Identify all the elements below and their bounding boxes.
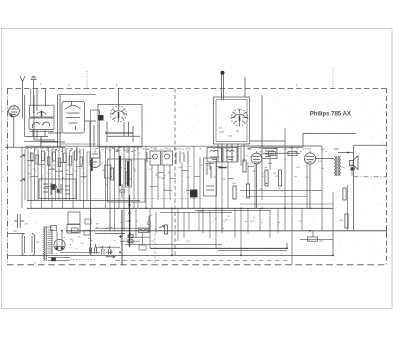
pickup arrow b xyxy=(106,251,112,253)
wire mains left a xyxy=(8,233,25,235)
wire psu h260 xyxy=(48,260,70,262)
wire IF1 lead extra a xyxy=(109,208,111,231)
wire link mid-3 xyxy=(182,169,188,171)
output transformer T3 secondary xyxy=(339,157,340,176)
wire IF1 lead extra b xyxy=(114,208,116,231)
bus wire earth y200 xyxy=(27,200,140,202)
wire vertical mid-3 xyxy=(163,165,165,208)
psu small dark box xyxy=(52,258,56,261)
rectifier B9 dots xyxy=(56,247,59,249)
capacitor C45 xyxy=(269,152,276,156)
chassis boundary dash-dot line left xyxy=(7,89,9,265)
power transformer core lines xyxy=(46,227,52,261)
wire vertical x262 xyxy=(261,95,263,147)
resistor R36h xyxy=(288,152,297,156)
junction dot 0 xyxy=(129,233,131,235)
wire vertical x57.5 xyxy=(57,95,59,147)
resistor R41 box xyxy=(51,226,57,231)
wire vertical mid-7 xyxy=(193,146,195,208)
wire vertical mid-6 xyxy=(187,163,189,208)
potentiometer arrow 1 xyxy=(20,155,25,157)
wire corner x24.7-y136 xyxy=(25,136,48,138)
wire link left-2 xyxy=(48,168,55,170)
wire vertical x45.6 xyxy=(45,89,47,107)
chassis boundary dashed line top xyxy=(7,88,387,90)
wire vertical mid-22 xyxy=(332,192,334,231)
capacitor C8 left plates xyxy=(14,214,24,228)
resistor R8 xyxy=(69,156,72,165)
wire vertical left-1 xyxy=(24,149,26,201)
wire link left-3 xyxy=(59,161,66,163)
wire link mid-6 xyxy=(228,177,234,179)
wire vertical mid-8 xyxy=(199,157,201,208)
wire x142 drop xyxy=(142,233,144,246)
wire link left-4 xyxy=(66,173,73,175)
capacitor C33 xyxy=(147,216,151,233)
wire psu h257 xyxy=(48,257,70,259)
resistor R9 xyxy=(75,151,78,160)
wire vertical mid-19 xyxy=(291,146,293,231)
antenna lead wire xyxy=(22,89,24,119)
shield box T2 outer xyxy=(214,97,250,144)
wire grid cap lead a xyxy=(221,74,223,100)
wire vertical bot-2 xyxy=(149,208,151,248)
wire link left-6 xyxy=(45,185,52,187)
shield box interior specks xyxy=(219,128,239,136)
wire AF return y196 xyxy=(247,196,307,198)
wire vertical mid-24 xyxy=(351,164,353,176)
tube B4 envelope xyxy=(111,106,127,122)
wire link left-8 xyxy=(80,175,87,177)
mains dropper squiggle xyxy=(140,229,147,231)
bus bottom y244 xyxy=(125,244,222,246)
wire vertical x34 xyxy=(33,95,35,140)
potentiometer arrow 2 xyxy=(20,179,25,181)
mains cable shield left xyxy=(22,234,34,256)
svg-text:s: s xyxy=(84,76,85,78)
wire vertical bot-12 xyxy=(240,208,242,255)
wire vertical x189 xyxy=(188,212,190,231)
junction dot 3 xyxy=(286,248,288,250)
wire vertical mid-1 xyxy=(151,165,153,208)
resistor R12 xyxy=(126,172,129,184)
tube B6 envelope xyxy=(251,153,262,164)
wire rectifier top a xyxy=(56,231,58,240)
wire vertical bot-8 xyxy=(209,210,211,238)
resistor R4 xyxy=(47,157,50,165)
wire signal rail y146 xyxy=(25,145,240,147)
wire x41 drop xyxy=(40,137,42,148)
resistor R3 xyxy=(42,151,45,161)
heater dashed rail y260 xyxy=(115,259,290,261)
tube B8 dark hatch xyxy=(91,158,93,171)
pickup capacitor Ca xyxy=(102,246,105,255)
ground symbol (earth) xyxy=(31,76,37,88)
svg-text:NFS: NFS xyxy=(334,148,339,151)
tube B2 anode curl left xyxy=(32,123,39,129)
wire can1 leads xyxy=(33,130,45,139)
dark bus vertical x129 xyxy=(129,195,131,247)
wire streak y144 xyxy=(60,143,96,145)
wire vertical mid-21 xyxy=(321,146,323,231)
junction dot 6 xyxy=(119,251,121,253)
svg-text:Philips 785 AX: Philips 785 AX xyxy=(310,112,351,118)
wire vertical left-0 xyxy=(21,147,23,208)
wire IF1 lead 3 xyxy=(118,147,120,208)
wire vertical bot-9 xyxy=(215,231,217,248)
resistor R45 horizontal xyxy=(308,237,318,241)
wire link mid-11 xyxy=(205,162,214,164)
wire vertical left-12 xyxy=(62,147,64,208)
switch contacts xyxy=(43,183,70,195)
wire audio feed y147 xyxy=(250,146,303,148)
trimmer row xyxy=(147,151,188,164)
bus wire aux y212 xyxy=(160,211,232,213)
wire vertical left-13 xyxy=(65,149,67,201)
choke dark winding b xyxy=(127,161,130,186)
wire vertical mid-10 xyxy=(215,162,217,231)
wire vertical left-6 xyxy=(41,150,43,208)
wire x90 heavy xyxy=(90,160,92,255)
wire box1 bottom link xyxy=(34,139,55,141)
speaker field dash-dot line xyxy=(354,176,387,178)
wire B7 down xyxy=(309,164,311,208)
wire vertical mid-4 xyxy=(169,165,171,200)
junction dot 2 xyxy=(240,255,242,257)
wire vertical x90 x94 xyxy=(90,121,94,147)
terminal block dark xyxy=(191,190,198,197)
bandfilter box F1 xyxy=(150,151,161,165)
switch dark knob xyxy=(52,185,56,190)
antenna trimmer dotted lead xyxy=(86,71,88,89)
tube B7 output envelope xyxy=(304,153,315,164)
wire audio coupling y146 xyxy=(240,145,322,147)
pickup capacitor Cb xyxy=(109,246,112,255)
resistor R33 xyxy=(164,225,167,234)
wire link left-5 xyxy=(31,175,38,177)
bus bottom y228 xyxy=(95,227,150,229)
tube B2 umbrella grid xyxy=(37,112,46,114)
svg-text:U: U xyxy=(95,152,97,155)
wire link mid-9 xyxy=(164,189,172,191)
tube B2 anode curl right xyxy=(43,122,50,126)
wire vertical bot-10 xyxy=(221,208,223,233)
wire vertical left-14 xyxy=(69,150,71,200)
IF T1 inner verticals xyxy=(107,122,133,142)
wire box2 bottom y131 xyxy=(48,132,62,134)
wire vertical left-4 xyxy=(34,147,36,200)
wire mains left b xyxy=(8,254,23,256)
wire vertical bot-13 xyxy=(247,208,249,233)
IF T1 wire y136 xyxy=(107,135,140,137)
speaker LS cone xyxy=(353,156,358,170)
tube B4 electrode spokes xyxy=(111,106,127,122)
wire vertical bot-6 xyxy=(183,212,185,238)
wire vertical mid-16 xyxy=(261,158,263,200)
wave-band switch box xyxy=(39,179,76,199)
IF T1 dark corner part xyxy=(99,116,104,121)
wire vertical mid-2 xyxy=(157,165,159,200)
rectifier tube B9 envelope xyxy=(54,239,65,250)
wire vertical mid-14 xyxy=(247,162,249,184)
wire vertical left-5 xyxy=(37,149,39,201)
wire y142 link xyxy=(40,141,65,143)
wire IF1 lead 0 xyxy=(105,147,107,208)
wire vertical bot-1 xyxy=(135,208,137,238)
wire vertical left-7 xyxy=(44,152,46,201)
wire vertical bot-7 xyxy=(202,208,204,233)
resistor R27 xyxy=(265,170,268,186)
IF can T1 outline xyxy=(98,105,142,148)
wire corner y133 x303 xyxy=(303,134,356,148)
wire vertical bot-11 xyxy=(234,208,236,238)
shield box T2 inner xyxy=(216,100,247,142)
wire vertical x60.5 xyxy=(59,95,61,147)
wire link left-1 xyxy=(38,163,45,165)
wire link mid-7 xyxy=(248,165,254,167)
tube B3 top arc xyxy=(66,106,81,110)
wire HT rail right extension xyxy=(322,230,387,232)
antenna A xyxy=(20,76,25,89)
det box D2 xyxy=(223,148,237,163)
wire transformer top xyxy=(44,226,53,228)
wire vertical x199 xyxy=(198,210,200,231)
mains dropper box xyxy=(139,228,149,233)
wire IF1 lead 5 xyxy=(128,147,130,208)
bus bottom y250 second xyxy=(218,249,287,251)
bus bottom y247 xyxy=(95,246,120,248)
screen grid dashed shield x175 xyxy=(174,89,176,256)
wire vertical bot-16 xyxy=(277,208,279,233)
chassis boundary dashed line bottom xyxy=(7,264,387,266)
bus wire HT y208 xyxy=(27,207,333,209)
wire speaker box top xyxy=(354,144,387,146)
wire grid cap lead b xyxy=(223,74,225,100)
wire vertical mid-0 xyxy=(145,146,147,208)
wire y248 rise x287 xyxy=(286,243,288,248)
switch dark bit 2 xyxy=(57,190,60,193)
tube B5 umbrella grid xyxy=(234,114,246,117)
det box D1 xyxy=(207,148,222,163)
wire link bottomleft xyxy=(66,230,77,232)
mains cable conductors xyxy=(25,236,32,253)
junction dots on HT bus xyxy=(145,207,311,209)
choke dark winding a xyxy=(119,156,121,186)
bus bottom y241 xyxy=(120,240,140,242)
wire vertical bot-5 xyxy=(177,208,179,241)
wire vertical bot-3 xyxy=(155,212,157,233)
tube B5 grid cap terminal xyxy=(221,71,224,74)
wire can1 y131.5 xyxy=(29,131,54,133)
resistor R10 xyxy=(80,157,83,165)
wire x292 drop xyxy=(291,231,293,265)
wire y147 long xyxy=(5,146,65,148)
wire vertical left-18 xyxy=(83,150,85,208)
wire vertical mid-18 xyxy=(284,128,286,231)
wire vertical bot-0 xyxy=(129,208,131,233)
wire vertical mid-20 xyxy=(306,164,308,208)
switch S box b xyxy=(128,240,133,243)
dotted lead above chassis x333 xyxy=(332,68,334,89)
wire link mid-2 xyxy=(170,177,176,179)
wire tube B1 down xyxy=(13,116,15,147)
pot arrow AF xyxy=(159,226,164,228)
capacitor C21 plates xyxy=(119,184,125,198)
tube B3 cathode xyxy=(72,102,76,131)
wire speaker box left xyxy=(353,145,355,231)
wire right block h239 xyxy=(300,238,333,240)
bus bottom y255 long xyxy=(20,254,333,256)
wire link left-9 xyxy=(55,170,62,172)
output transformer T3 core xyxy=(337,156,338,176)
decoupling box A xyxy=(68,212,80,224)
output transformer T3 primary xyxy=(335,157,336,176)
tube B7 electrodes xyxy=(306,151,314,162)
wire grid stub y153 xyxy=(263,152,300,154)
choke winding b frame xyxy=(126,160,132,187)
speaker LS frame xyxy=(350,161,354,166)
bus bottom y233 xyxy=(95,233,125,235)
wire IF1 lead 1 xyxy=(109,147,111,231)
wire box2 right y121 xyxy=(85,120,97,122)
resistor R11 xyxy=(110,168,113,180)
resistor R7 xyxy=(64,153,67,163)
resistor R43 box xyxy=(84,231,90,236)
tube B1 electrodes xyxy=(11,106,18,115)
wire vertical mid-13 xyxy=(240,146,242,166)
wire vertical x30.8 xyxy=(30,89,32,106)
wire vertical mid-9 xyxy=(209,162,211,170)
resistor R39 bleeder xyxy=(345,214,348,228)
junction dot 4 xyxy=(309,230,311,232)
resistor R6 xyxy=(58,158,61,167)
bus bottom y248 heavy xyxy=(150,247,287,249)
wire AF return y190 xyxy=(240,189,322,191)
capacitor tick dark xyxy=(219,167,227,169)
tube B4 anode bar xyxy=(118,112,120,118)
wire AF return y204 xyxy=(240,203,333,205)
resistor R23 xyxy=(233,186,236,199)
small part kg xyxy=(85,219,91,224)
wire top link y94.7 xyxy=(58,94,96,96)
junction dot 5 xyxy=(332,255,334,257)
power transformer core hatching xyxy=(48,230,52,253)
pickup arrow a xyxy=(106,256,115,258)
wire x313 drop xyxy=(312,231,314,237)
resistor R2 xyxy=(36,155,39,164)
wire rectifier top b xyxy=(61,231,63,240)
wire link mid-5 xyxy=(216,165,222,167)
wire vertical bot-15 xyxy=(269,210,271,238)
resistor R29 xyxy=(278,170,281,186)
IF3 parts xyxy=(206,163,214,190)
switch S box a xyxy=(128,235,133,238)
wire link mid-4 xyxy=(194,175,200,177)
dark bus blobs xyxy=(128,205,130,236)
wire link mid-8 xyxy=(150,185,158,187)
wire T2 aux top lead xyxy=(244,77,246,97)
wire vertical mid-5 xyxy=(181,163,183,208)
switch S plus mark xyxy=(119,235,122,238)
wire T2 out y141 xyxy=(250,140,286,142)
wire vertical left-15 xyxy=(72,152,74,209)
wire vertical left-10 xyxy=(55,150,57,200)
svg-text:M: M xyxy=(37,241,39,244)
dial lamp dotted lead xyxy=(70,259,95,261)
bus wire aux y210 xyxy=(195,209,270,211)
wire streak y141 xyxy=(24,140,58,142)
tube B1 envelope xyxy=(9,106,20,117)
tube B3 envelope box xyxy=(62,102,85,134)
wire link mid-0 xyxy=(146,157,152,159)
wire x333 drop xyxy=(332,231,334,256)
bus bottom y231 xyxy=(66,230,322,232)
resistor R42 box xyxy=(72,228,79,233)
svg-text:14D: 14D xyxy=(141,148,145,150)
resistor R22 xyxy=(246,184,249,198)
capacitor C50 electrolytic xyxy=(90,244,92,254)
tube B5 anode bar xyxy=(239,116,241,122)
rectifier B9 anodes xyxy=(55,242,64,247)
chassis boundary dashed line right xyxy=(386,89,388,265)
bandfilter box F2 xyxy=(162,151,173,165)
bandfilter F1 coil xyxy=(153,154,158,159)
wire vertical left-17 xyxy=(79,149,81,201)
IF T1 heavy wire y133 xyxy=(105,132,133,134)
tube B6 electrodes xyxy=(253,151,261,162)
wire vertical left-2 xyxy=(27,150,29,200)
bandfilter F2 coil xyxy=(165,154,170,159)
wire vertical mid-15 xyxy=(254,164,256,208)
wire T2 left leads xyxy=(218,144,244,162)
wire B6 down xyxy=(256,164,258,208)
tube B8 internals xyxy=(92,154,98,162)
svg-text:(35): (35) xyxy=(342,167,346,169)
wire vertical mid-17 xyxy=(269,158,271,170)
junction dot speaker feed xyxy=(347,152,349,154)
wire vertical left-3 xyxy=(30,152,32,209)
wire AVC vertical x37 xyxy=(36,89,38,112)
wire vertical bot-4 xyxy=(171,208,173,255)
bus bottom y237 xyxy=(131,236,150,238)
wire vertical left-8 xyxy=(48,147,50,200)
wire B4 top lead xyxy=(118,89,120,107)
wire IF1 lead 6 xyxy=(133,147,135,208)
wire vertical left-19 xyxy=(86,152,88,201)
wire IF1 lead 7 xyxy=(137,147,139,208)
wire vertical left-9 xyxy=(51,149,53,209)
resistor R5 xyxy=(53,152,56,161)
det box D1 coil xyxy=(210,150,219,159)
wire speaker top feed xyxy=(338,152,354,154)
small part box C15 xyxy=(105,165,112,178)
wire B7 plate right xyxy=(316,158,334,160)
tube B5 electrode spokes xyxy=(231,109,248,126)
resistor R38 xyxy=(343,188,346,200)
wire link left-7 xyxy=(76,165,83,167)
coil frame box xyxy=(108,159,146,202)
wire vertical bot-17 xyxy=(301,208,303,231)
tube B8 magic-eye envelope xyxy=(90,151,100,168)
junction dot 7 xyxy=(61,230,63,232)
IF3 screen box xyxy=(204,158,217,196)
narrow can box xyxy=(91,110,100,158)
junction dot 1 xyxy=(171,255,173,257)
tube B4 umbrella grid xyxy=(113,111,125,114)
resistor R1 xyxy=(31,153,34,161)
wire vertical x24.7 xyxy=(24,95,26,137)
tube B3 grid lines xyxy=(66,113,80,123)
